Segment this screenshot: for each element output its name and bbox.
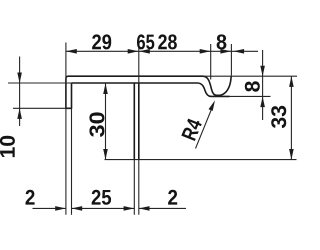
ext main wall right face x=138.8 above and below profile (138, 43, 140, 215)
main wall left face (133, 83, 135, 160)
arrow 65 right (220, 49, 231, 54)
ext curl right x=231.4 (230, 44, 232, 76)
arrowheads (17, 49, 293, 211)
extension lines (8, 43, 297, 215)
arrow 8-top right (outside) (233, 49, 244, 54)
10-dim line x=19.6 (19, 57, 21, 127)
arrow 33 top (inside, up) (289, 76, 294, 87)
ext top face y=76.2 rightwards across groove for 8/33 dims (203, 75, 297, 77)
text 8 rotated right (245, 81, 260, 91)
ext groove left x=210.7 (210, 44, 212, 80)
text 2 bottom-right (168, 190, 177, 205)
text 33 rotated (271, 106, 286, 128)
arrow 33 bottom (inside, down) (289, 149, 294, 160)
text 29 (92, 34, 101, 49)
30-dim line x=106 (105, 83, 107, 159)
ext flange bottom y=83 leftwards for 10 dim (8, 82, 72, 84)
ext left wall inner x=71.5 down to bottom dims (71, 108, 73, 215)
arrow 10 upper (outside, down) (17, 73, 22, 84)
R4 leader line (196, 105, 214, 149)
arrow 30 top (inside, up) (103, 83, 108, 94)
arrow 25 right (inside, right) (124, 206, 135, 211)
text 10 rotated (0, 136, 15, 157)
arrow 30 bottom (inside, down) (103, 149, 108, 160)
text 28 (158, 34, 167, 49)
left leg outer face + top face + groove + swept lip tip (66, 76, 231, 108)
R4 leader arrowhead (209, 100, 216, 111)
33-dim line x=291.4 (290, 76, 292, 159)
ext main wall left face x=134.3 below profile (133, 160, 135, 215)
main wall right face (138, 83, 140, 160)
profile outline (end-profile cross-section with swept drip lip, R4 groove) (66, 76, 231, 159)
text 25 bottom (92, 190, 101, 205)
text 30 rotated (89, 112, 104, 137)
arrow 2-right (outside, left) (139, 206, 150, 211)
ext left leg bottom y=108.3 (13, 107, 66, 109)
ext left wall outer x=65.9 (top dims + bottom dims) (65, 43, 67, 215)
arrow 29 left (66, 49, 77, 54)
bottom dimension line y=208.3 (2 / 25 / 2) (33, 207, 187, 209)
arrow 8-right upper (outside, down) (260, 66, 265, 77)
text R4 rotated along leader (181, 117, 202, 141)
arrow 2-left (outside, right) (55, 206, 66, 211)
arrow 28 right (200, 49, 211, 54)
8-dim line right x=262.6 (262, 50, 264, 120)
arrow 28 left / bowtie right (139, 49, 150, 54)
ext wall bottom y=159.8 across for 30/33 dims (105, 159, 297, 161)
left leg inner face + leg bottom edge (66, 83, 72, 108)
ext lower face y=96.4 rightwards for 8 dim (229, 95, 271, 97)
arrow 10 lower (outside, up) (17, 108, 22, 119)
lower face of flange through to groove underside (72, 83, 230, 96)
arrow 8-right lower (outside, up) (260, 97, 265, 108)
dimension lines (20, 50, 292, 208)
top dimension line y=51 (29 / 65 28 / 8 chain) (66, 50, 258, 52)
arrow 29 right / bowtie left (128, 49, 139, 54)
text 65 (137, 34, 145, 49)
text 8 top (217, 34, 227, 49)
arrow 25 left (inside, left) (72, 206, 83, 211)
text 2 bottom-left (26, 190, 35, 205)
